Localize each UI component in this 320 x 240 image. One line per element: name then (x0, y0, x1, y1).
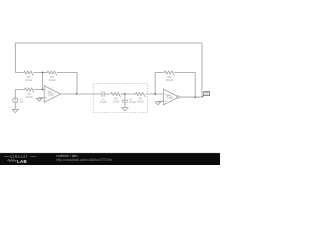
svg-text:TL081: TL081 (166, 97, 173, 99)
svg-text:10 kΩ: 10 kΩ (26, 95, 33, 99)
svg-text:10 kΩ: 10 kΩ (112, 99, 119, 103)
svg-text:http://circuitlab.com/c462wc37: http://circuitlab.com/c462wc37767bb (56, 158, 112, 162)
svg-text:10 kΩ: 10 kΩ (166, 78, 173, 82)
svg-text:LAB: LAB (17, 159, 27, 164)
svg-text:10 µF: 10 µF (129, 100, 136, 104)
svg-text:TL081: TL081 (48, 94, 55, 96)
svg-text:10 kΩ: 10 kΩ (49, 78, 56, 82)
svg-text:10 µF: 10 µF (100, 100, 107, 104)
svg-text:10 kΩ: 10 kΩ (137, 99, 144, 103)
svg-text:10 kΩ: 10 kΩ (25, 78, 32, 82)
svg-text:1 V: 1 V (20, 100, 24, 104)
